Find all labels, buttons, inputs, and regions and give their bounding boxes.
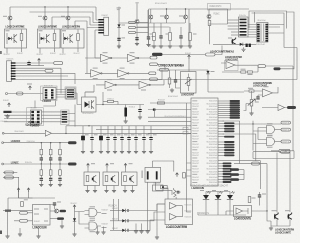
- wire OC4 top: [85, 92, 94, 97]
- svg-text:LOADCOUNT: LOADCOUNT: [181, 93, 194, 97]
- wire comp right: [252, 164, 268, 211]
- svg-text:R10kC47uHC: R10kC47uHC: [209, 133, 218, 135]
- capacitor C2b: [135, 37, 138, 38]
- svg-text:R10kC47uHC14I: R10kC47uHC14I: [207, 174, 218, 176]
- wire G3 out: [275, 129, 282, 131]
- svg-text:R10kC47: R10kC47: [60, 54, 66, 56]
- svg-text:R10kC47uHC14I: R10kC47uHC14I: [207, 152, 218, 154]
- AND gate G1: [89, 209, 97, 217]
- wire MCU left vertical: [187, 103, 192, 212]
- module outline IC1: [41, 86, 57, 101]
- wire riser b: [85, 28, 91, 74]
- svg-text:R10kC47: R10kC47: [34, 221, 40, 223]
- resistor R9: [21, 202, 24, 207]
- label PSU oval: [152, 53, 163, 56]
- MCU left wire r4: [148, 120, 191, 122]
- capacitor C14: [27, 62, 30, 63]
- label br row oval: [252, 162, 260, 165]
- MCU left wire r3: [148, 116, 191, 118]
- svg-text:R10kC4: R10kC4: [129, 107, 135, 109]
- svg-text:R10kC47uHC1: R10kC47uHC1: [15, 131, 25, 133]
- wire CON2 left 2: [228, 22, 239, 24]
- svg-text:R10kC47: R10kC47: [112, 208, 118, 210]
- RS diode row 3: [110, 229, 122, 231]
- ground bl mid: [61, 224, 63, 226]
- wire second rail: [30, 12, 99, 23]
- svg-text:R10kC47: R10kC47: [192, 171, 199, 173]
- svg-text:R10kC47: R10kC47: [4, 54, 10, 56]
- wire rs vert: [114, 199, 119, 230]
- label Q5: [179, 16, 183, 17]
- wire IC4 bottom: [38, 228, 40, 234]
- comparator innards: [236, 208, 243, 214]
- svg-text:LOAD: LOAD: [280, 150, 289, 153]
- trimpot VR1: [187, 78, 190, 86]
- wire CON2 left 1: [228, 19, 239, 21]
- svg-text:R10kC47: R10kC47: [185, 53, 191, 55]
- connector CON3 pins: [11, 62, 16, 63]
- wire row1: [4, 132, 45, 134]
- transistor Q11: [288, 213, 292, 220]
- stripe block SB2: [62, 111, 67, 112]
- wire right drop: [287, 12, 295, 28]
- inverter INV4: [118, 70, 128, 77]
- transistor Q9: [55, 209, 59, 213]
- ground temp: [171, 88, 173, 90]
- inductor L2: [173, 190, 176, 198]
- wire caps bus 2: [96, 129, 191, 131]
- net oval direct 2: [281, 150, 291, 153]
- svg-text:LOADC: LOADC: [11, 161, 19, 165]
- vertical net VX3: [147, 10, 149, 37]
- svg-text:R10kC47u: R10kC47u: [185, 204, 192, 206]
- MCU left stubs lower: [187, 163, 192, 176]
- diode D6: [73, 218, 76, 221]
- label out oval 2: [57, 217, 64, 220]
- optocoupler OC2 innards: [39, 30, 43, 31]
- wire X1 loop: [152, 161, 173, 172]
- svg-text:R10kC47uHC14I: R10kC47uHC14I: [207, 131, 218, 133]
- svg-text:R10kC47uHC: R10kC47uHC: [209, 160, 218, 162]
- ground VX3: [148, 43, 150, 45]
- wire OC1 bottom leads: [7, 48, 22, 54]
- svg-text:R10kC47: R10kC47: [192, 144, 199, 146]
- svg-text:R10kC47uHC14I: R10kC47uHC14I: [207, 169, 218, 171]
- label RESET oval: [54, 62, 63, 65]
- wires IC1-SB1: [56, 90, 66, 98]
- svg-text:R10kC47uHC14I: R10kC47uHC14I: [207, 147, 218, 149]
- wires CON2-U3: [248, 25, 257, 38]
- svg-text:LOADCOUNTE: LOADCOUNTE: [275, 230, 291, 234]
- svg-text:R10kC47u: R10kC47u: [7, 59, 14, 61]
- svg-text:LOADCO: LOADCO: [43, 99, 52, 103]
- label br left ovals: [230, 168, 239, 171]
- wire U3 right: [268, 25, 284, 34]
- svg-text:R10kC47uHC14I: R10kC47uHC14I: [207, 136, 218, 138]
- ground VX1: [118, 44, 120, 46]
- svg-text:LOADCOUN: LOADCOUN: [33, 225, 48, 229]
- svg-text:R10kC47: R10kC47: [192, 155, 199, 157]
- capacitor C11: [138, 109, 141, 110]
- wire led bus: [198, 212, 246, 215]
- svg-text:LOADCOUNTERME: LOADCOUNTERME: [38, 25, 57, 29]
- wire and bottom: [253, 151, 294, 159]
- op-amp OA2: [263, 89, 273, 97]
- wire bus line 3: [52, 17, 98, 29]
- svg-text:R10kC47: R10kC47: [17, 53, 23, 55]
- svg-text:R10kC47: R10kC47: [112, 228, 118, 230]
- svg-text:R10kC4: R10kC4: [108, 98, 114, 100]
- label X1 side: [142, 171, 143, 179]
- svg-text:R10kC47: R10kC47: [158, 100, 165, 102]
- wire CON2 left 3: [228, 25, 239, 27]
- wire bl left vert: [7, 212, 9, 235]
- wire CON2 left 4: [228, 28, 239, 30]
- OC4 innards: [85, 102, 90, 108]
- ground IC4: [38, 234, 40, 236]
- label Q4: [160, 16, 164, 17]
- module outline SB1: [65, 87, 76, 99]
- svg-text:R10kC47: R10kC47: [192, 136, 199, 138]
- svg-text:R10kC47uHC: R10kC47uHC: [209, 128, 218, 130]
- wire bl top: [8, 192, 55, 211]
- inverter INV7: [139, 81, 149, 88]
- electrolytic C10: [124, 108, 127, 117]
- resistor R5b: [248, 71, 253, 73]
- resistor R2: [153, 33, 156, 41]
- capacitor C1: [117, 38, 120, 39]
- svg-text:R10kC47uHC: R10kC47uHC: [210, 6, 222, 8]
- module outline IC2: [27, 108, 44, 126]
- wire br bottom link: [267, 211, 271, 226]
- junction X1: [177, 191, 178, 192]
- RS diode row 1: [110, 210, 122, 212]
- capacitor C13: [179, 36, 182, 37]
- svg-text:R10kC47: R10kC47: [50, 53, 56, 55]
- power arrow bc: [73, 205, 76, 209]
- buffer B1 row1: [45, 130, 51, 136]
- power arrow IC1: [29, 86, 32, 90]
- connector CON2 pins: [240, 19, 247, 21]
- wire riser a: [95, 30, 101, 58]
- inverter INV6: [105, 81, 115, 88]
- connector CON2 box: [239, 17, 249, 37]
- svg-text:R10kC47: R10kC47: [192, 131, 199, 133]
- diode D3: [4, 111, 12, 113]
- net oval NA1: [129, 21, 136, 23]
- wire br row: [234, 163, 267, 165]
- svg-text:R10kC47u: R10kC47u: [239, 15, 246, 17]
- decoupling capacitors row: [82, 126, 84, 137]
- optocoupler OC4 box: [82, 97, 97, 112]
- stripe block SB1: [66, 88, 75, 99]
- inverter INV2: [128, 54, 138, 61]
- optocoupler OC1 innards: [6, 30, 10, 31]
- ground bl left: [7, 234, 9, 236]
- transistor Q2: [43, 16, 47, 20]
- label PSU 2: [206, 53, 216, 56]
- wire inv row B: [101, 72, 148, 74]
- svg-text:R10kC47uHC14IC4069XR10kC47: R10kC47uHC14IC4069XR10kC47: [190, 184, 228, 188]
- buffer B2: [278, 105, 285, 111]
- svg-text:R10kC47: R10kC47: [192, 160, 199, 162]
- IC U3 body: [257, 23, 268, 43]
- IC2 pads: [31, 111, 34, 113]
- wire and vert 2: [257, 128, 259, 140]
- ground extra 2: [97, 227, 99, 231]
- svg-text:R10kC47: R10kC47: [102, 223, 109, 225]
- wire row2: [3, 142, 68, 144]
- dark part pair: [246, 44, 248, 47]
- svg-text:R10kC47u: R10kC47u: [154, 183, 161, 185]
- svg-text:LOADCOUNT: LOADCOUNT: [225, 58, 238, 62]
- wire power bus 2: [119, 23, 185, 27]
- svg-text:R10kC47: R10kC47: [192, 103, 199, 105]
- vertical net VX1: [118, 7, 120, 48]
- net oval row B: [149, 72, 156, 75]
- wire direct net 2: [253, 151, 281, 153]
- MCU pin name text: [192, 99, 197, 102]
- svg-text:R10kC47: R10kC47: [102, 210, 109, 212]
- transistor Q5: [184, 15, 188, 19]
- RS diode row 2: [110, 220, 122, 222]
- wire OA2 in: [244, 91, 263, 95]
- wire caps bus 1: [66, 125, 191, 127]
- capacitor C5: [174, 80, 177, 81]
- svg-text:R10kC47uHC: R10kC47uHC: [209, 139, 218, 141]
- OPTION IC innards: [170, 203, 177, 221]
- wires IC2-SB2: [42, 112, 62, 122]
- label CLK oval: [20, 211, 28, 214]
- wire OA2 out: [273, 87, 279, 93]
- ground extra 1: [19, 228, 21, 232]
- IC2 box: [31, 110, 42, 124]
- label temp left oval 1: [150, 63, 158, 66]
- svg-text:R10kC47: R10kC47: [192, 139, 199, 141]
- svg-text:R10kC47uHC14I: R10kC47uHC14I: [207, 125, 218, 127]
- AND gate G2: [89, 222, 97, 230]
- resistor R5: [241, 71, 246, 73]
- svg-text:R10kC47: R10kC47: [192, 177, 199, 179]
- OPTION IC box: [165, 199, 193, 225]
- label Q1: [3, 15, 7, 18]
- wire Q6 loop: [209, 9, 228, 24]
- wire CON3 drop: [60, 68, 62, 93]
- transistor Q10: [275, 213, 279, 220]
- wire br vert 2: [289, 153, 291, 213]
- LED LD2: [215, 195, 221, 200]
- svg-text:R10kC47uHC: R10kC47uHC: [256, 44, 266, 46]
- wire right edge link: [284, 43, 297, 80]
- wire power frame: [149, 9, 189, 46]
- svg-text:R10kC47: R10kC47: [102, 15, 109, 17]
- AND gate G4: [267, 138, 275, 146]
- ground extra 3: [103, 227, 105, 231]
- svg-text:R10kC47uHC: R10kC47uHC: [209, 166, 218, 168]
- net oval NA2: [129, 26, 136, 28]
- IC4 box: [33, 205, 51, 226]
- wire G4 in: [253, 140, 267, 144]
- ground bc: [74, 232, 76, 234]
- wire MCU long 2: [223, 134, 256, 161]
- wire PSU 2: [215, 46, 222, 55]
- wire CON2 left 6: [231, 34, 239, 36]
- wire and vert 1: [252, 121, 254, 151]
- wire SB2 vertical: [74, 105, 76, 127]
- ground Q8: [251, 111, 253, 113]
- wire X1 bottom: [148, 182, 172, 195]
- svg-text:R10kC47u: R10kC47u: [199, 213, 210, 215]
- op-amp OA1: [226, 62, 235, 69]
- wire MCU long 1: [223, 121, 240, 164]
- transistor Q6: [207, 15, 211, 19]
- wire loop inner: [252, 13, 285, 43]
- connector CON1 box: [104, 17, 109, 35]
- svg-text:R10kC47uHC14I: R10kC47uHC14I: [207, 109, 218, 111]
- svg-text:R10kC47: R10kC47: [192, 111, 199, 113]
- power arrows bottom left: [17, 188, 20, 192]
- transistor Q7: [232, 38, 236, 45]
- wire option left: [157, 204, 165, 235]
- transistor Q4: [165, 15, 169, 19]
- capacitor C8: [53, 203, 56, 204]
- diode D4: [206, 71, 209, 74]
- ground D3: [7, 114, 9, 116]
- label out oval 1: [60, 210, 67, 213]
- capacitor C4: [256, 97, 259, 98]
- svg-text:LOADCOUNTERMEAS: LOADCOUNTERMEAS: [210, 49, 234, 53]
- transistor Q3: [66, 16, 70, 20]
- wire q10 q11: [271, 220, 290, 227]
- wire direct net 1: [234, 123, 281, 125]
- AND gate G3: [267, 126, 275, 134]
- wire right long drop: [292, 66, 294, 151]
- svg-text:LOADCOUNTERME: LOADCOUNTERME: [6, 25, 25, 29]
- svg-text:R10kC47uHC: R10kC47uHC: [209, 117, 218, 119]
- svg-text:R10kC47: R10kC47: [71, 203, 77, 205]
- resistor R6: [249, 90, 254, 92]
- svg-text:R10kC47: R10kC47: [74, 53, 80, 55]
- MCU body: [191, 98, 218, 186]
- wire CON3 p1: [16, 62, 54, 64]
- svg-text:R10kC47: R10kC47: [192, 179, 199, 181]
- label p4 oval: [45, 69, 53, 72]
- wire bc vert: [74, 209, 76, 232]
- IC1 pads: [45, 89, 48, 91]
- resistor R3b: [189, 33, 192, 41]
- IC1 box: [43, 88, 56, 100]
- svg-text:R10kC47uHC: R10kC47uHC: [209, 122, 218, 124]
- wire inv row C: [96, 80, 164, 85]
- net oval G4: [281, 140, 291, 143]
- label DATA oval: [20, 219, 28, 222]
- svg-text:R10kC47uHC14IC4069XR10kC4: R10kC47uHC14IC4069XR10kC4: [165, 116, 186, 118]
- svg-text:R10kC47: R10kC47: [192, 152, 199, 154]
- svg-text:LOADCOUNTERM: LOADCOUNTERM: [62, 25, 81, 29]
- box 1B: [225, 61, 239, 71]
- wire led tops: [206, 191, 230, 193]
- svg-text:R10kC47uHC: R10kC47uHC: [209, 150, 218, 152]
- net oval G3: [281, 128, 291, 131]
- MCU left wire r5: [148, 133, 191, 135]
- IC U3 pins: [257, 24, 260, 26]
- svg-text:R10kC47: R10kC47: [31, 107, 37, 109]
- scan mark left lower: [0, 231, 2, 235]
- wire CON3 p3: [16, 67, 62, 69]
- svg-text:R10kC47uHC14I: R10kC47uHC14I: [207, 163, 218, 165]
- svg-text:R10kC47: R10kC47: [3, 100, 9, 102]
- svg-text:OUT1: OUT1: [282, 130, 289, 132]
- ground R2: [153, 44, 155, 46]
- wire loop outer: [249, 11, 287, 29]
- IC4 pin text: [34, 209, 39, 210]
- junction MCU left: [154, 109, 155, 110]
- wire row C down: [85, 85, 94, 92]
- svg-text:R10kC47: R10kC47: [192, 114, 199, 116]
- ground extra 4: [135, 224, 137, 230]
- resistor R3: [169, 33, 172, 41]
- connector CON3 box: [7, 61, 12, 82]
- wire MCU long 3: [223, 161, 261, 189]
- wire row3: [3, 163, 68, 165]
- svg-text:R10kC47u: R10kC47u: [185, 210, 192, 212]
- wire pot feed: [188, 59, 190, 72]
- transistor Q12: [135, 20, 139, 24]
- ground option: [156, 235, 158, 237]
- power arrow IC2: [8, 103, 11, 107]
- wire temp row: [157, 69, 208, 71]
- svg-text:R10kC47uHC: R10kC47uHC: [209, 106, 218, 108]
- svg-text:R10kC47uHC14I: R10kC47uHC14I: [207, 114, 218, 116]
- LED LD1: [203, 195, 209, 200]
- label OSC oval: [274, 67, 281, 70]
- module outline SB2: [61, 110, 69, 125]
- inverter INV1: [101, 54, 111, 61]
- svg-text:R10kC47uHC14I: R10kC47uHC14I: [207, 158, 218, 160]
- wire SB2 right: [67, 114, 75, 122]
- wire G inputs: [75, 212, 85, 225]
- transistor Q1: [8, 16, 12, 20]
- power +5V temp: [188, 55, 191, 59]
- MCU right pin stubs: [218, 100, 230, 102]
- label comp oval: [160, 68, 169, 71]
- ground VX2: [136, 42, 138, 44]
- wire IC1 input: [8, 93, 43, 95]
- LED LD3: [227, 195, 233, 200]
- svg-text:R10kC47uHC1: R10kC47uHC1: [155, 3, 168, 5]
- svg-text:R10kC47: R10kC47: [192, 163, 199, 165]
- wire CON3 p5: [16, 73, 76, 84]
- wire OC2 bottom leads: [40, 48, 55, 54]
- vertical net VX2: [136, 4, 138, 42]
- label TX oval: [279, 149, 290, 152]
- diode D2: [240, 43, 243, 46]
- svg-text:R10kC47: R10kC47: [192, 122, 199, 124]
- zener D1: [117, 24, 120, 27]
- wire fb row: [222, 66, 258, 72]
- optocoupler OC3 innards: [62, 30, 66, 31]
- svg-text:R10kC47uHC14I: R10kC47uHC14I: [207, 141, 218, 143]
- wire option top: [163, 188, 176, 199]
- svg-text:R10kC47u: R10kC47u: [25, 162, 32, 164]
- MCU net labels: [230, 100, 241, 102]
- net oval NA3: [129, 31, 136, 33]
- resistor R8: [183, 173, 186, 179]
- label Q2: [38, 15, 42, 18]
- wire Q8 corner: [244, 104, 251, 111]
- ground extra 5: [141, 224, 143, 230]
- wire IC2 in2: [4, 115, 31, 122]
